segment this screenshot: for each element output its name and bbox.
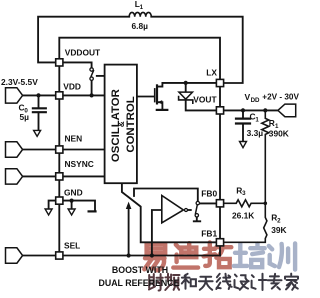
switch S1 circle top [90, 68, 93, 71]
svg-text:SEL: SEL [64, 240, 80, 250]
svg-text:2.3V-5.5V: 2.3V-5.5V [1, 77, 38, 87]
junction C0 [36, 93, 40, 97]
junction C1 [241, 108, 245, 112]
switch S2 blade [196, 205, 198, 214]
svg-text:DD: DD [251, 97, 260, 104]
ground bar right [89, 210, 96, 212]
wire VDD input [23, 94, 56, 96]
wire NEN to block [63, 149, 105, 151]
wire amp input to ground rail [152, 210, 169, 256]
svg-text:3: 3 [242, 190, 246, 197]
watermark line1 char 拓 [204, 242, 232, 267]
watermark line2 char 设 [235, 275, 249, 290]
watermark line1 char 训 [269, 243, 295, 269]
wire oscillator blade to FB1 [122, 183, 216, 242]
watermark line1 char 迪 [173, 243, 198, 267]
wire NSYNC input [23, 175, 56, 177]
junction R1-R3-R2 [264, 202, 268, 206]
ground symbol C1 [240, 142, 247, 148]
wire switch to VDD line [91, 80, 93, 95]
pin VOUT [216, 107, 223, 114]
svg-text:3.3µ: 3.3µ [247, 128, 264, 138]
wire arrow wiper [128, 209, 130, 256]
connector tag SEL [6, 248, 23, 263]
svg-text:CONTROL: CONTROL [125, 96, 137, 152]
svg-text:VDD: VDD [63, 82, 81, 92]
svg-text:DUAL REFERENCE: DUAL REFERENCE [99, 278, 180, 288]
pin GND [56, 197, 63, 204]
resistor R3 [224, 200, 266, 207]
wire diode to VOUT [186, 100, 217, 111]
capacitor C0 plates [33, 108, 46, 112]
watermark line2 char 专 [268, 274, 282, 290]
oscillator block U1 [105, 65, 137, 184]
watermark line2 char 射 [149, 274, 163, 291]
ground symbol C0 [34, 130, 41, 136]
pin FB1 [216, 239, 223, 246]
svg-text:2: 2 [277, 217, 281, 224]
pin VDDOUT [56, 59, 63, 66]
ground symbol GND left [45, 209, 52, 215]
transistor M1 gate bar [154, 89, 156, 102]
wire gate [137, 96, 154, 98]
wire NEN input [23, 149, 56, 151]
amp output circle [185, 209, 188, 212]
watermark line1 char 易 [144, 244, 165, 270]
wire GND branches [49, 201, 95, 212]
connector tag NEN [6, 142, 23, 157]
ground symbol GND mid [68, 209, 75, 215]
pin FB0 [216, 200, 223, 207]
junction amp rail [150, 253, 154, 257]
switch S2 circle top [196, 201, 199, 204]
junction switch-VDD [90, 93, 94, 97]
wire below switch S2 [196, 217, 198, 220]
junction GND mid [70, 199, 74, 203]
arrow head wiper [126, 202, 132, 209]
diode D1 triangle [179, 92, 193, 99]
wire amp output stub [188, 209, 191, 211]
svg-text:26.1K: 26.1K [232, 210, 254, 220]
svg-text:+2V - 30V: +2V - 30V [262, 92, 299, 101]
amplifier A1 [162, 196, 184, 223]
diode D1 schottky bar [179, 97, 193, 104]
capacitor C1 leads [242, 110, 244, 141]
wire outer loop right: L1 to LX [151, 17, 242, 83]
pin VDD [56, 92, 63, 99]
svg-text:5µ: 5µ [20, 112, 30, 122]
watermark line2 char 天 [199, 277, 213, 290]
wire VDDOUT to switch [63, 62, 92, 68]
wire VDD to oscillator [63, 94, 105, 96]
svg-text:FB0: FB0 [201, 189, 217, 199]
capacitor C0 leads [38, 95, 40, 130]
watermark line2 char 计 [252, 274, 267, 290]
watermark line2 char 线 [216, 274, 231, 289]
wire FB switch top [134, 189, 198, 202]
junction R1 [263, 108, 267, 112]
svg-text:390K: 390K [269, 128, 289, 138]
wire switch stub to block [97, 75, 105, 77]
pin NEN [56, 146, 63, 153]
wire drain to LX [157, 83, 216, 87]
svg-text:1: 1 [140, 4, 144, 11]
connector tag VDD output [278, 104, 296, 117]
watermark line1 char 培 [234, 244, 265, 268]
svg-text:LX: LX [206, 68, 217, 78]
resistor R2 [224, 203, 267, 242]
watermark line2 char 家 [285, 274, 298, 290]
transistor M1 source arrow [158, 100, 163, 104]
svg-text:BOOST WITH: BOOST WITH [112, 265, 168, 275]
wire FB0 from switch [199, 202, 216, 204]
svg-text:1: 1 [255, 116, 259, 123]
pin NSYNC [56, 173, 63, 180]
svg-text:NSYNC: NSYNC [65, 159, 94, 169]
wire VOUT rail to tag [224, 109, 278, 111]
wire source [157, 102, 162, 109]
svg-text:V: V [245, 92, 251, 102]
pin LX [216, 79, 223, 86]
junction arrow rail [127, 253, 131, 257]
svg-text:VOUT: VOUT [193, 95, 217, 105]
svg-text:NEN: NEN [65, 133, 83, 143]
wire ground rail [22, 255, 220, 257]
wire outer loop left: VDDOUT up and across top to L1 [38, 17, 129, 63]
switch S1 blade [91, 71, 93, 77]
wire NSYNC to block [63, 175, 105, 177]
bar below switch S2 [194, 220, 200, 222]
inductor L1 [129, 12, 151, 16]
svg-text:GND: GND [64, 187, 83, 197]
svg-text:FB1: FB1 [201, 229, 217, 239]
svg-text:6.8µ: 6.8µ [132, 21, 149, 31]
ground bar source [157, 109, 168, 111]
wire LX tap to diode [185, 83, 187, 92]
svg-text:39K: 39K [271, 225, 286, 235]
connector tag VDD input [6, 88, 23, 103]
capacitor C1 plates [236, 119, 250, 124]
IC boundary [59, 38, 220, 256]
junction diode tap [184, 81, 188, 85]
transistor M1 channel bar [156, 85, 158, 103]
switch S1 circle bottom [90, 77, 93, 80]
watermark line2 char 频 [165, 274, 179, 290]
pin SEL [56, 252, 63, 259]
svg-text:VDDOUT: VDDOUT [65, 47, 101, 57]
svg-text:R: R [269, 118, 275, 128]
resistor R1 [262, 110, 269, 202]
switch S2 circle bottom [195, 214, 198, 217]
watermark line2 char 和 [182, 274, 196, 289]
connector tag NSYNC [6, 169, 23, 184]
